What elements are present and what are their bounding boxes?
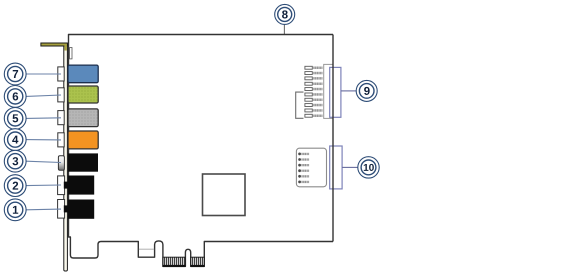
IC chip U1 [203,174,246,216]
leader line callout 4 [26,139,61,141]
leader line callout 6 [26,95,61,96]
jack 4 (orange) [68,131,98,149]
leader line callout 2 [26,184,61,187]
callout circle 6 [4,86,26,108]
slot depth line in edge-connector step [139,248,154,250]
header 9 pins (10 pin tips and hatched shafts) [305,66,323,117]
jack 1 nub [64,205,70,212]
jack 3 (black minijack) [68,153,98,171]
leader line callout 8 [284,24,295,105]
card right edge (over connectors) [332,35,334,242]
callout circle 2 [4,175,26,197]
callout circle 3 [4,150,26,172]
callout circle 8 [275,4,295,24]
callout circle 7 [4,63,26,85]
jack 3 collar (metal barrel) [58,156,64,171]
gold fingers segment B [191,257,205,266]
metal bracket vertical bar [64,43,68,271]
connector 10 blue bracket [330,146,342,189]
leader line callout 7 [26,73,61,75]
callout circle 5 [4,108,26,130]
connector 9 blue bracket [330,67,341,117]
jack 4 collar [58,133,64,147]
leader line callout 10 [342,166,358,168]
jack 7 collar [58,67,64,81]
jack 2 nub [64,182,70,189]
jack 6 (green line-out) [68,86,98,103]
header 10 body [296,148,326,187]
leader line callout 1 [26,208,61,211]
header 10 pins (6 pins with dots) [298,153,309,184]
jack 2 (black optical) [68,176,94,195]
jack 5 collar [58,111,64,125]
leader line callout 5 [26,117,61,120]
gold fingers segment A [163,257,186,266]
callout circle 10 [358,157,379,178]
jack 6 collar [58,88,64,102]
jack 5 (gray) [68,109,98,127]
leader line callout 3 [26,161,61,162]
solder tab on card edge near top [70,48,72,59]
jack 1 (black optical) [68,200,94,219]
jack 7 (blue line-in) [68,65,98,83]
callout 8 range bracket [296,92,304,118]
card outline (PCB) [69,35,334,267]
callout circle 9 [356,80,377,101]
callout circle 1 [4,199,26,221]
jack 1 collar [58,200,65,219]
metal bracket top tab [41,43,68,46]
jack 2 collar [58,176,65,195]
callout circle 4 [4,129,26,151]
bracket bend olive fill [64,44,67,51]
leader line callout 9 [341,90,356,92]
header 9 body [324,64,333,118]
